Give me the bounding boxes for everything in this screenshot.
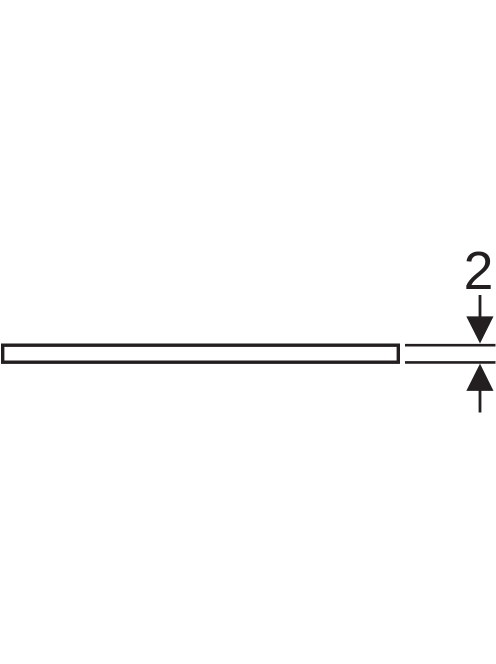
panel (side view, thin plate): [3, 345, 399, 362]
dimension leader line bottom: [479, 388, 482, 413]
extension line top: [405, 344, 496, 347]
arrowhead up: [466, 364, 493, 391]
svg-text:2: 2: [464, 242, 494, 301]
arrowhead down: [466, 316, 493, 343]
extension line bottom: [405, 361, 496, 364]
dimension leader line top: [479, 295, 482, 330]
